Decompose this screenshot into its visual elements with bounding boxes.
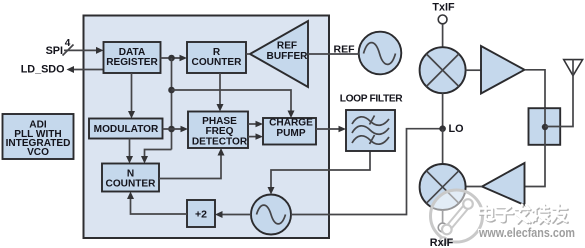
PLL chip outline xyxy=(84,16,330,239)
watermark chinese text fa xyxy=(515,205,531,224)
charge pump xyxy=(263,118,316,145)
phase freq detector xyxy=(188,112,248,149)
antenna switch box xyxy=(529,108,561,145)
svg-text:RxIF: RxIF xyxy=(430,237,454,248)
wire switch to rx amplifier xyxy=(525,145,546,187)
watermark chinese text dian xyxy=(479,206,495,222)
wire rx mixer to RxIF port xyxy=(442,210,444,223)
wire tx amplifier to antenna switch xyxy=(525,70,546,108)
svg-text:LD_SDO: LD_SDO xyxy=(21,64,65,76)
vco oscillator xyxy=(251,195,291,235)
watermark chinese text zi xyxy=(496,207,514,222)
TxIF port terminal xyxy=(438,15,447,24)
wire branch to charge pump top xyxy=(172,90,295,118)
node junction on data bus xyxy=(168,55,175,62)
antenna xyxy=(564,60,583,76)
wire divider to n counter bottom xyxy=(127,192,187,215)
wire ref buffer to r counter xyxy=(246,53,250,55)
svg-text:REGISTER: REGISTER xyxy=(106,57,158,68)
svg-text:COUNTER: COUNTER xyxy=(106,178,157,189)
wire antenna to switch xyxy=(545,76,573,127)
wire loop filter to vco xyxy=(268,151,371,195)
node junction modulator output xyxy=(168,126,175,133)
wire data bus into n counter xyxy=(141,150,172,164)
watermark chinese text you xyxy=(552,205,568,224)
wire data bus vertical xyxy=(171,58,173,150)
wire n counter to pfd bottom xyxy=(159,148,225,179)
ADI PLL WITH INTEGRATED VCO label box xyxy=(3,114,74,159)
wire rx amplifier to rx mixer xyxy=(466,186,482,188)
r counter xyxy=(187,42,246,73)
svg-text:PUMP: PUMP xyxy=(276,128,305,139)
svg-text:BUFFER: BUFFER xyxy=(267,51,309,62)
ref crystal oscillator xyxy=(359,32,402,75)
node junction inside switch xyxy=(542,124,548,130)
watermark chinese text shao xyxy=(533,205,551,225)
ref buffer amplifier xyxy=(250,21,308,87)
loop filter xyxy=(346,110,395,151)
svg-text:www.elecfans.com: www.elecfans.com xyxy=(478,225,575,240)
svg-text:SPI: SPI xyxy=(46,45,63,57)
wire data register to modulator xyxy=(128,73,135,119)
wire tx mixer to tx amplifier xyxy=(466,69,481,71)
watermark logo circle xyxy=(431,190,483,244)
wire TxIF port to tx mixer xyxy=(442,24,444,47)
data register xyxy=(104,42,161,73)
svg-text:TxIF: TxIF xyxy=(432,2,455,14)
wire tx mixer to LO node xyxy=(442,93,444,129)
wire modulator to n counter xyxy=(126,139,133,164)
wire vco output to LO node xyxy=(291,129,443,215)
wire pfd up output to charge pump xyxy=(248,121,263,127)
node junction to charge pump branch xyxy=(168,87,175,94)
wire ref oscillator to ref buffer xyxy=(308,53,359,55)
wire data register to r counter xyxy=(161,55,188,61)
rx amplifier xyxy=(482,163,525,205)
svg-text:VCO: VCO xyxy=(27,147,49,158)
rx mixer xyxy=(420,164,466,210)
modulator xyxy=(89,119,163,139)
wire LD_SDO out of data register xyxy=(67,66,104,73)
n counter xyxy=(102,164,159,192)
wire LO node to rx mixer xyxy=(442,129,444,164)
wire pfd down output to charge pump xyxy=(248,133,263,139)
wire vco to divider xyxy=(215,211,251,218)
wire modulator to phase freq detector xyxy=(163,126,189,132)
svg-text:DETECTOR: DETECTOR xyxy=(192,136,248,147)
tx mixer xyxy=(420,47,466,93)
divider /2 xyxy=(187,200,215,227)
wire r counter to phase freq detector xyxy=(217,73,224,112)
bus slash xyxy=(63,45,74,56)
wire charge pump to loop filter xyxy=(316,126,346,132)
tx amplifier xyxy=(481,46,525,94)
LO node junction xyxy=(439,125,446,132)
svg-text:LO: LO xyxy=(449,123,464,135)
svg-text:+2: +2 xyxy=(195,209,207,221)
RxIF port terminal xyxy=(438,223,447,232)
svg-text:COUNTER: COUNTER xyxy=(192,57,243,68)
svg-text:LOOP FILTER: LOOP FILTER xyxy=(340,94,404,105)
wire SPI into data register xyxy=(64,47,104,54)
svg-text:MODULATOR: MODULATOR xyxy=(94,124,159,135)
